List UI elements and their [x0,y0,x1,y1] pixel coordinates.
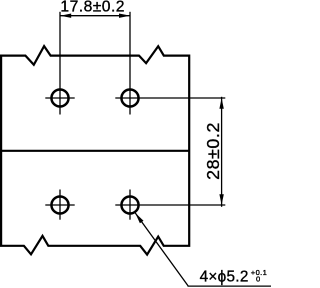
dimension text 17.8±0.2 [60,0,125,16]
hole top-right circle [121,89,138,106]
svg-text:28±0.2: 28±0.2 [203,122,223,180]
tolerance +0.1 / 0 [251,268,267,283]
dimension text 28±0.2 (rotated) [203,122,223,180]
svg-text:4×ϕ5.2: 4×ϕ5.2 [200,268,249,285]
hole bottom-left centerlines [45,190,74,220]
hole bottom-right circle [121,196,138,213]
leader line with arrowhead [135,213,271,286]
svg-text:0: 0 [256,274,260,283]
hole top-left circle [51,89,68,106]
plate middle seam line [1,150,189,152]
plate outline with break zigzags [1,46,189,255]
svg-text:17.8±0.2: 17.8±0.2 [60,0,125,16]
hole top-left centerlines [45,12,74,115]
hole bottom-right centerlines [115,190,225,220]
hole bottom-left circle [51,196,68,213]
vertical dimension line 28 with arrowheads [219,97,223,207]
hole top-right centerlines [115,12,225,115]
leader text 4xφ5.2 [200,268,249,285]
horizontal dimension line 17.8 with arrowheads [60,14,130,18]
